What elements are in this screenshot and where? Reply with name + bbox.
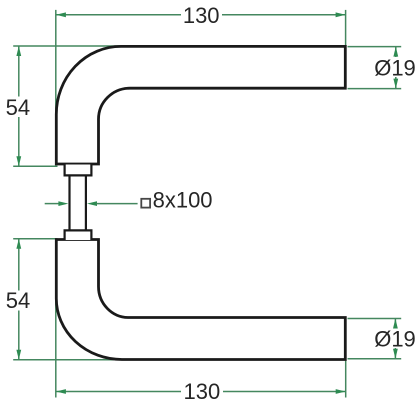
svg-text:130: 130 [183, 3, 220, 28]
spindle leader: right line [96, 203, 138, 205]
dimension 130 top: right extension line [345, 10, 347, 46]
dimension D19 top-right: top extension line [348, 46, 402, 48]
dimension 54 top-left: dimension line [18, 46, 20, 97]
svg-text:54: 54 [6, 288, 30, 313]
dimension 130 bottom: left arrowhead [56, 389, 66, 394]
dimension D19 top-right: up arrowhead [393, 47, 398, 57]
square spindle: left edge [68, 175, 70, 230]
dimension 130 bottom: left extension line [55, 240, 57, 398]
dimension D19 top-right: bottom extension line [348, 88, 402, 90]
dimension 54 top-left: down arrowhead [16, 156, 21, 166]
dimension D19 bottom-right: dimension line [394, 319, 396, 329]
dimension D19 bottom-right: bottom extension line [348, 358, 402, 360]
dimension 54 top-left: bottom extension line [13, 165, 57, 167]
dimension D19 top-right: down arrowhead [393, 79, 398, 89]
dimension D19 top-right: dimension line [395, 47, 397, 57]
spindle leader: left line [45, 203, 60, 205]
upper collar (rose neck step) [65, 165, 92, 176]
lower collar (rose neck step) [65, 230, 92, 240]
dimension 54 bottom-left: down arrowhead [16, 350, 21, 360]
svg-text:8x100: 8x100 [153, 187, 213, 212]
dimension 130 top: left extension line [55, 10, 57, 164]
dimension 54 top-left: top extension line [13, 45, 120, 47]
dimension D19 bottom-right: up arrowhead [393, 319, 398, 329]
upper lever handle outline [56, 46, 345, 164]
dimension 130 top: right arrowhead [336, 12, 346, 17]
dimension D19 bottom-right: down arrowhead [393, 349, 398, 359]
svg-text:54: 54 [6, 95, 30, 120]
spindle label: square symbol [141, 199, 150, 208]
dimension 130 bottom: right arrowhead [336, 389, 346, 394]
dimension 54 bottom-left: dimension line [18, 239, 20, 291]
square spindle: right edge [85, 175, 87, 230]
dimension 54 bottom-left: top extension line [13, 238, 57, 240]
dimension 54 bottom-left: up arrowhead [16, 239, 21, 249]
dimension 130 bottom: right extension line [345, 361, 347, 398]
spindle leader: left arrowhead pointing right [58, 201, 68, 206]
svg-text:Ø19: Ø19 [374, 326, 416, 351]
dimension D19 bottom-right: top extension line [348, 318, 402, 320]
dimension 130 top: dimension line [56, 14, 181, 16]
dimension 54 top-left: up arrowhead [16, 46, 21, 56]
spindle leader: right arrowhead pointing left [87, 201, 97, 206]
svg-text:Ø19: Ø19 [374, 56, 416, 81]
lower lever handle outline [56, 240, 345, 360]
dimension 130 top: left arrowhead [56, 12, 66, 17]
dimension 54 bottom-left: bottom extension line [13, 359, 122, 361]
svg-text:130: 130 [184, 379, 221, 404]
dimension 130 bottom: dimension line [56, 391, 181, 393]
